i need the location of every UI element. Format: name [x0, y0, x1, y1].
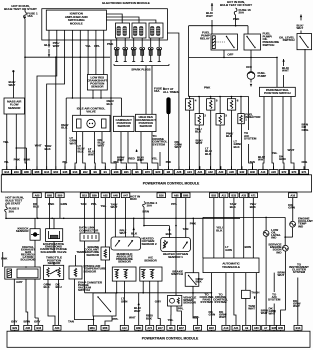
- wire TPS out 1: [44, 279, 56, 325]
- wire PNK module down: [107, 40, 117, 170]
- svg-text:B21: B21: [124, 170, 129, 174]
- fuel pump / oil pressure switch: [244, 34, 261, 50]
- camshaft position sensor: [114, 116, 135, 131]
- svg-text:SENSOR: SENSOR: [183, 301, 197, 305]
- svg-text:GRY: GRY: [34, 320, 40, 324]
- wire pin B52 to transmission: [213, 198, 215, 258]
- svg-text:A53: A53: [55, 326, 60, 330]
- wire VSS out 2: [177, 306, 184, 325]
- high res crankshaft position sensor: [135, 114, 156, 131]
- wire fusible link to pin: [167, 114, 169, 170]
- wire PNP out 1: [258, 97, 265, 170]
- fuel pump relay label: [200, 31, 210, 41]
- svg-text:B9: B9: [94, 170, 98, 174]
- main bus lower (y218.3): [5, 218, 240, 220]
- svg-text:YEL: YEL: [85, 44, 91, 48]
- svg-text:A12: A12: [122, 326, 127, 330]
- svg-text:TRANSAXLE: TRANSAXLE: [222, 265, 240, 269]
- svg-text:A71: A71: [251, 193, 256, 197]
- wire injector 4 out: [190, 110, 202, 170]
- svg-text:WHT: WHT: [288, 148, 295, 152]
- a/c pressure sensor: [140, 267, 162, 281]
- wire pin B15 to DLC: [81, 198, 87, 233]
- wire transmission out 1 (cooling fans): [200, 273, 216, 326]
- svg-text:POWERTRAIN CONTROL MODULE: POWERTRAIN CONTROL MODULE: [143, 182, 200, 186]
- heated oxygen sensor 1 label: [163, 252, 188, 259]
- svg-text:B22: B22: [209, 326, 214, 330]
- wire PNP out 3: [279, 97, 286, 170]
- svg-text:PNK: PNK: [166, 161, 171, 164]
- svg-text:WHT: WHT: [248, 307, 255, 311]
- svg-text:WHT: WHT: [137, 158, 144, 162]
- low oil level indicator: [263, 231, 269, 237]
- throttle position sensor label: [46, 256, 62, 265]
- svg-text:WHT: WHT: [98, 143, 105, 147]
- svg-text:GRY: GRY: [16, 280, 22, 284]
- indicator feed to lamps: [284, 217, 286, 245]
- svg-text:SYSTEM: SYSTEM: [200, 300, 213, 304]
- wire to PNP switch: [276, 57, 278, 87]
- svg-text:SENSOR: SENSOR: [84, 269, 98, 273]
- spark plug 1: [114, 38, 119, 62]
- service engine soon indicator: [283, 245, 289, 251]
- ground bus (y57): [24, 56, 110, 58]
- PCM connector pins row 1: [2, 166, 308, 174]
- labels above pins mid: [129, 281, 161, 325]
- data link connector label: [79, 226, 99, 233]
- wire camshaft out 1: [117, 132, 126, 170]
- ignition coil T2: [132, 23, 146, 38]
- label OFF pump: [246, 65, 252, 69]
- svg-text:A9: A9: [245, 326, 249, 330]
- service engine soon label: [268, 243, 282, 255]
- wire PPL/WHT label: [120, 229, 127, 236]
- svg-text:B55: B55: [278, 326, 283, 330]
- digital EGR solenoid: [5, 266, 40, 279]
- vehicle speed sensor: [168, 296, 182, 307]
- svg-text:SYSTEM: SYSTEM: [268, 298, 281, 302]
- wire MAF pin1 YEL: [3, 114, 9, 170]
- svg-text:OR START: OR START: [5, 201, 20, 205]
- svg-text:A24: A24: [187, 170, 192, 174]
- svg-text:A60: A60: [254, 326, 259, 330]
- fuel pump / oil pressure switch label: [263, 32, 280, 47]
- svg-text:SYSTEM: SYSTEM: [244, 137, 257, 141]
- wire camshaft out 2: [128, 132, 137, 170]
- svg-text:PPL: PPL: [171, 202, 177, 206]
- svg-text:B13: B13: [296, 326, 301, 330]
- svg-text:A13: A13: [224, 326, 229, 330]
- fuse F5: [5, 204, 20, 219]
- svg-text:A28: A28: [229, 170, 234, 174]
- wire IAT out: [68, 279, 94, 324]
- svg-text:RED: RED: [129, 157, 136, 161]
- svg-text:PNK: PNK: [14, 158, 21, 162]
- svg-text:GRN: GRN: [288, 206, 295, 210]
- fuse F1 (top left): [24, 10, 27, 170]
- wire YEL to low res sensor: [85, 30, 91, 74]
- svg-text:B48: B48: [250, 170, 255, 174]
- heated oxygen sensor 1: [161, 238, 191, 252]
- svg-text:B72: B72: [282, 170, 287, 174]
- wire pin B59 to DLC: [91, 198, 97, 233]
- svg-text:YEL: YEL: [101, 204, 107, 208]
- svg-text:SENSOR: SENSOR: [8, 106, 21, 110]
- label PNK top right: [204, 86, 211, 90]
- evap vacuum switch: [93, 293, 116, 316]
- svg-text:B52: B52: [211, 193, 216, 197]
- ground arrow HO2S1: [166, 226, 173, 238]
- heated oxygen sensor 2 label: [142, 237, 158, 246]
- svg-text:BLU: BLU: [33, 205, 39, 209]
- wire vacuum switch out 1: [93, 316, 95, 325]
- wire bus to brake switch PNK: [190, 218, 197, 273]
- fusible link (solid): [167, 98, 171, 115]
- svg-text:PNK: PNK: [204, 86, 211, 90]
- lamp link: [284, 228, 292, 238]
- svg-text:CONNECTOR: CONNECTOR: [79, 228, 99, 232]
- svg-text:BRN: BRN: [24, 320, 31, 324]
- label TAN above HO2S1: [183, 227, 189, 231]
- knock sensor label: [16, 226, 30, 233]
- svg-text:B19: B19: [14, 170, 19, 174]
- heater bus (y225.6): [143, 218, 169, 226]
- svg-text:ELECTRONIC IGNITION MODULE: ELECTRONIC IGNITION MODULE: [102, 1, 150, 5]
- svg-text:YEL: YEL: [272, 151, 278, 155]
- svg-text:WHT: WHT: [206, 14, 213, 18]
- ignition amplifier and switching module U1: [46, 10, 106, 30]
- svg-text:SENSOR: SENSOR: [118, 260, 132, 264]
- wire AC out 1: [142, 281, 144, 293]
- wire bus to camshaft sensor: [121, 98, 123, 116]
- svg-text:A52: A52: [103, 193, 108, 197]
- svg-text:WHT: WHT: [120, 231, 127, 235]
- svg-text:15A: 15A: [154, 89, 160, 93]
- svg-text:B33: B33: [231, 193, 236, 197]
- svg-text:PNK: PNK: [233, 17, 240, 21]
- wire injector 3 out: [220, 125, 233, 170]
- svg-text:B17: B17: [158, 326, 163, 330]
- wire pin B50 down: [60, 198, 67, 218]
- wire transmission out 2 (cruise): [213, 273, 228, 326]
- svg-text:B14: B14: [4, 170, 9, 174]
- mass air flow sensor: [4, 98, 25, 114]
- svg-text:ORG: ORG: [302, 128, 310, 132]
- label OFF relay: [227, 53, 233, 57]
- fuel injector 2: [195, 97, 206, 126]
- wire IAC out 3: [88, 132, 95, 170]
- park/neutral position switch: [260, 87, 296, 96]
- powertrain control module (top): [1, 175, 311, 192]
- automatic transmission: [203, 226, 259, 273]
- svg-text:A11: A11: [221, 193, 226, 197]
- wire ECT out: [105, 260, 107, 293]
- spark plugs bracket: [114, 64, 169, 66]
- wire transmission out 5: [255, 273, 257, 326]
- svg-text:SWITCH: SWITCH: [283, 38, 295, 42]
- ground arrow BLK/WHT mid: [134, 293, 141, 326]
- svg-text:WHT: WHT: [297, 26, 304, 30]
- svg-text:B15: B15: [82, 193, 87, 197]
- svg-text:POWERTRAIN CONTROL MODULE: POWERTRAIN CONTROL MODULE: [142, 337, 199, 341]
- wire SES out: [278, 251, 286, 325]
- oil level switch: [297, 34, 312, 50]
- svg-text:IND: IND: [298, 224, 304, 228]
- hot at all times label: [163, 87, 178, 94]
- svg-text:WHT: WHT: [258, 158, 265, 162]
- wire injector 2 out: [196, 125, 203, 170]
- wire relay out: [223, 50, 225, 57]
- wire evap to TPS top: [53, 242, 55, 266]
- engine coolant temp label: [298, 217, 313, 229]
- svg-text:VALVE: VALVE: [86, 110, 96, 114]
- svg-text:B6A: B6A: [90, 326, 95, 330]
- svg-text:PPL: PPL: [63, 161, 68, 164]
- svg-text:A26: A26: [177, 170, 182, 174]
- PCM connector pins row 3: [11, 325, 302, 331]
- lower connector bus (y292.8): [85, 292, 213, 294]
- svg-text:A23: A23: [271, 170, 276, 174]
- evap canister purge solenoid valve: [46, 218, 63, 241]
- svg-text:GRY: GRY: [11, 320, 17, 324]
- brake switch: [185, 273, 199, 287]
- svg-text:BLK: BLK: [250, 205, 257, 209]
- wire vacuum switch out 2: [105, 316, 119, 325]
- svg-text:BLK: BLK: [230, 205, 237, 209]
- svg-text:SENSOR: SENSOR: [48, 261, 62, 265]
- wire MAF pin2: [14, 114, 21, 170]
- svg-text:WHT: WHT: [219, 315, 226, 319]
- wire module to coil 3: [106, 20, 155, 23]
- PCM connector pins row 2: [33, 193, 297, 198]
- svg-text:BLK: BLK: [205, 152, 212, 156]
- wire EGR out BRN: [24, 279, 31, 325]
- manifold absolute pressure sensor: [112, 267, 136, 281]
- svg-text:B70: B70: [292, 170, 297, 174]
- wire MAF feed: [12, 72, 14, 98]
- wire brake switch out: [192, 277, 203, 325]
- svg-text:B68: B68: [47, 193, 52, 197]
- svg-text:B76: B76: [145, 170, 150, 174]
- intake air temp label: [84, 264, 107, 273]
- svg-text:YEL: YEL: [3, 140, 9, 144]
- svg-text:SENSOR: SENSOR: [91, 84, 104, 88]
- wire DLC to vacuum switch: [84, 241, 86, 293]
- svg-text:10A: 10A: [147, 204, 153, 208]
- spark plug 4: [140, 38, 145, 62]
- wire MAP out 2: [123, 281, 125, 325]
- wire PNK to EGR: [1, 252, 8, 267]
- power feed label HOT IN RUN (top left): [4, 4, 37, 11]
- wire module BLK to bus: [44, 30, 51, 57]
- svg-text:TAN: TAN: [68, 320, 74, 324]
- to instrument cluster label: [289, 262, 309, 274]
- svg-text:SENSOR 2: SENSOR 2: [142, 242, 158, 246]
- wire pin B6B to HO2S1: [185, 198, 187, 238]
- a/c pressure sensor label: [144, 255, 157, 262]
- svg-text:B6D: B6D: [136, 326, 141, 330]
- cruise control note: [153, 134, 168, 166]
- svg-text:BLK: BLK: [107, 102, 114, 106]
- wire oil level switch down: [302, 49, 310, 170]
- svg-text:B45: B45: [63, 170, 68, 174]
- svg-text:B29: B29: [12, 326, 17, 330]
- wire high res out 2: [152, 132, 158, 170]
- svg-text:WHT: WHT: [70, 141, 77, 145]
- svg-text:SENSOR: SENSOR: [86, 253, 100, 257]
- svg-text:B42: B42: [240, 170, 245, 174]
- wire module to coil 1: [106, 14, 122, 23]
- svg-text:SWITCH: SWITCH: [171, 272, 183, 276]
- svg-text:20A: 20A: [239, 11, 245, 15]
- svg-text:B59: B59: [92, 193, 97, 197]
- wire MAP out 3: [100, 295, 108, 302]
- injector feed bus: [189, 96, 249, 98]
- wire pin B33 to transmission: [230, 198, 237, 258]
- transmission feed bus: [203, 217, 285, 258]
- wire high res feed 1: [145, 66, 147, 114]
- wire MAF pin3 PNK tee: [15, 147, 30, 169]
- svg-text:A32: A32: [208, 170, 213, 174]
- idle air control valve: [73, 107, 110, 132]
- ignition coil T1: [116, 23, 130, 38]
- engine coolant temperature sensor label: [76, 245, 99, 257]
- svg-text:PPL: PPL: [194, 315, 200, 319]
- svg-text:YEL: YEL: [152, 157, 158, 161]
- wire pin A16 to coolant lamp: [288, 198, 295, 221]
- svg-text:PNK: PNK: [48, 202, 55, 206]
- svg-text:A65: A65: [174, 193, 179, 197]
- svg-text:SOLENOID: SOLENOID: [20, 257, 35, 261]
- wire IAC out 4: [98, 132, 106, 170]
- engine coolant temperature sensor: [101, 247, 110, 260]
- wire to a/c: [269, 273, 277, 326]
- relay feed bus: [189, 25, 248, 34]
- wire to A/C system: [244, 97, 257, 170]
- hot in run label (right): [220, 0, 252, 7]
- svg-text:RELAY: RELAY: [200, 36, 210, 40]
- wire PNP out 4: [288, 97, 295, 170]
- svg-text:WHT: WHT: [269, 312, 276, 316]
- svg-text:IND: IND: [271, 236, 276, 240]
- vehicle speed sensor label: [183, 295, 197, 304]
- svg-text:B13: B13: [73, 170, 78, 174]
- low oil level label: [271, 228, 281, 240]
- svg-text:BLK: BLK: [196, 280, 203, 284]
- svg-text:B67: B67: [195, 326, 200, 330]
- wire tach out: [246, 298, 255, 325]
- svg-text:PNK: PNK: [24, 158, 31, 162]
- svg-text:BLK: BLK: [216, 228, 223, 232]
- svg-text:GRN: GRN: [61, 202, 68, 206]
- svg-text:B12: B12: [83, 170, 88, 174]
- wire to low oil lamp: [265, 217, 267, 230]
- wire DK GRN/WHT from ignition module: [167, 33, 182, 170]
- powertrain control module (bottom): [7, 331, 310, 347]
- wire pin A65 to VSS: [171, 198, 177, 296]
- wire pin A11 to transmission: [223, 198, 225, 258]
- svg-text:YEL: YEL: [4, 161, 9, 164]
- svg-text:A31: A31: [198, 170, 203, 174]
- svg-text:POSITION SWITCH: POSITION SWITCH: [264, 91, 290, 95]
- wire arrow to oil level switch: [297, 15, 304, 34]
- wire injector 6 out: [232, 110, 242, 170]
- spark plug 3: [131, 38, 136, 62]
- svg-text:A95: A95: [25, 326, 30, 330]
- svg-text:15A: 15A: [27, 14, 33, 18]
- svg-text:GRN: GRN: [279, 157, 286, 161]
- wire instrument cluster: [293, 278, 301, 326]
- ground arrow HO2S2: [131, 218, 138, 237]
- spark plug 6: [157, 38, 162, 62]
- wire PNP out 2: [272, 97, 278, 170]
- hot in run label (lower left): [5, 196, 23, 206]
- wire VSS out 1: [168, 306, 174, 325]
- wire low res out 2: [100, 90, 102, 98]
- svg-text:20A: 20A: [9, 209, 15, 213]
- svg-text:A48: A48: [113, 193, 118, 197]
- wire TPS out 2: [56, 279, 62, 325]
- svg-text:BLK: BLK: [44, 43, 51, 47]
- svg-text:B47: B47: [179, 326, 184, 330]
- svg-text:SENSOR: SENSOR: [144, 258, 157, 262]
- svg-text:B18: B18: [114, 170, 119, 174]
- svg-text:PPL: PPL: [113, 317, 119, 321]
- svg-text:B6: B6: [169, 326, 173, 330]
- wire pin A48 to HO2S2: [111, 198, 118, 237]
- svg-text:BLK: BLK: [131, 232, 138, 236]
- spark plug 5: [148, 38, 153, 62]
- svg-text:SWITCH: SWITCH: [263, 43, 275, 47]
- fuel injector 5: [207, 97, 218, 111]
- data link connector: [80, 233, 99, 241]
- wire pin A52 to ECT: [101, 198, 107, 247]
- svg-text:B55: B55: [35, 170, 40, 174]
- svg-text:RUN: RUN: [130, 197, 137, 201]
- wire to low res sensor 3: [103, 30, 105, 74]
- svg-text:B1: B1: [104, 170, 108, 174]
- ignition coil T3: [149, 23, 163, 38]
- svg-text:WHT: WHT: [261, 311, 268, 315]
- svg-text:PNK: PNK: [107, 42, 114, 46]
- svg-text:ALL TIMES: ALL TIMES: [163, 90, 178, 94]
- svg-text:BRN: BRN: [245, 245, 251, 249]
- svg-text:WHT: WHT: [53, 44, 60, 48]
- tach connector: [242, 290, 260, 298]
- wire module to IAC valve: [79, 30, 81, 115]
- electronic ignition module label: [102, 1, 150, 5]
- svg-text:A7: A7: [264, 326, 268, 330]
- wire pin A47 to HO2S2: [125, 198, 127, 237]
- fuse F4: [143, 201, 158, 218]
- svg-text:BLK: BLK: [226, 134, 233, 138]
- svg-text:A47: A47: [123, 193, 128, 197]
- svg-text:WHT: WHT: [134, 309, 141, 313]
- spark plugs label: [131, 67, 150, 71]
- svg-text:B52: B52: [53, 170, 58, 174]
- wire BLK/WHT arrow up (relay feed): [206, 3, 213, 34]
- svg-text:A33: A33: [241, 193, 246, 197]
- wire pin A71 to transmission: [250, 198, 257, 258]
- engine coolant temp indicator: [290, 221, 296, 227]
- svg-text:PNK: PNK: [114, 161, 119, 164]
- svg-text:B85: B85: [24, 170, 29, 174]
- fuse F1 label: [27, 11, 38, 18]
- intake air temperature sensor: [69, 266, 82, 279]
- svg-text:B8: B8: [167, 170, 171, 174]
- wire AC out 2: [146, 281, 153, 325]
- connector terminal to fuel pump feed (left): [9, 70, 16, 87]
